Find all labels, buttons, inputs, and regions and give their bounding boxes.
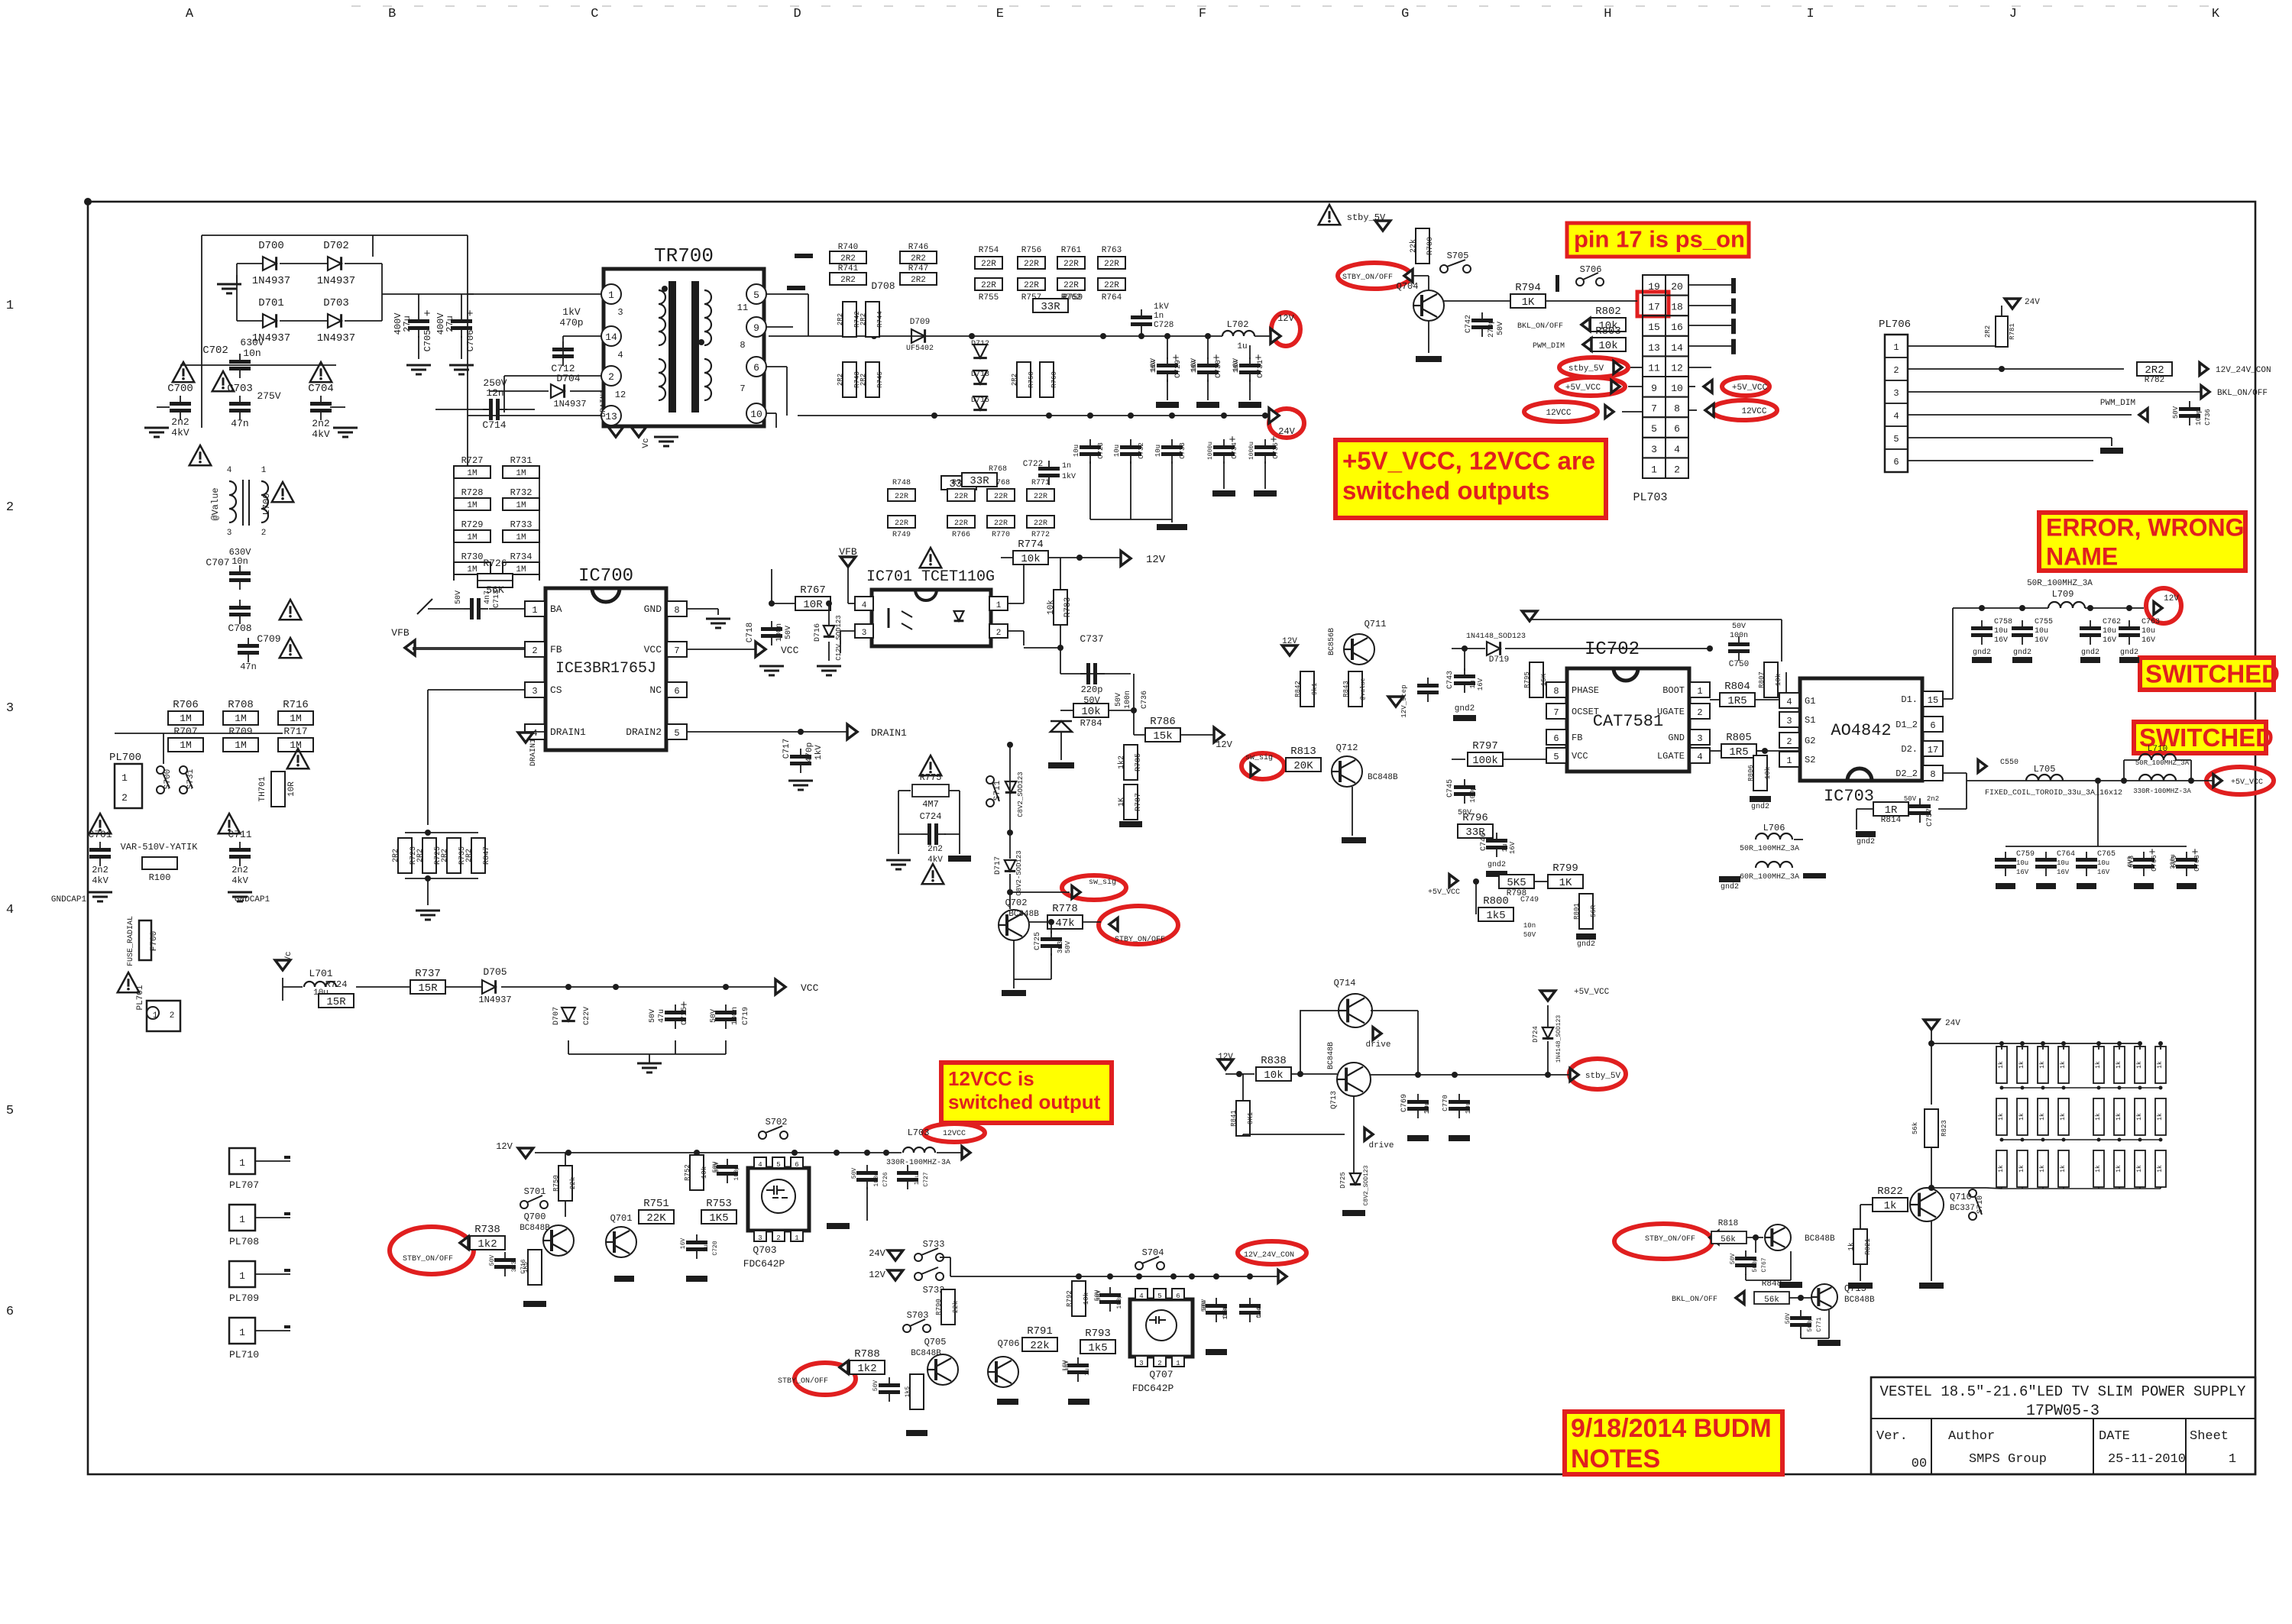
svg-text:Vc: Vc <box>284 951 293 961</box>
svg-text:1M: 1M <box>516 533 526 542</box>
svg-text:S711: S711 <box>993 780 1002 801</box>
svg-text:R732: R732 <box>510 487 533 498</box>
svg-text:VCC: VCC <box>801 982 819 994</box>
svg-text:10k: 10k <box>1083 1292 1090 1305</box>
svg-text:4: 4 <box>1786 697 1792 707</box>
svg-text:C755: C755 <box>2035 618 2053 626</box>
svg-text:2R2: 2R2 <box>416 849 425 862</box>
svg-text:R778: R778 <box>1052 903 1078 915</box>
svg-text:C731: C731 <box>1257 360 1265 378</box>
svg-text:C718: C718 <box>746 623 755 642</box>
svg-text:7: 7 <box>740 383 745 394</box>
svg-text:12: 12 <box>615 390 626 400</box>
svg-text:TR700: TR700 <box>654 244 714 267</box>
svg-text:1K5: 1K5 <box>709 1212 728 1224</box>
svg-text:D708: D708 <box>871 280 895 292</box>
svg-text:5: 5 <box>1893 434 1899 445</box>
svg-text:1: 1 <box>1651 464 1657 475</box>
svg-text:FIXED_COIL_TOROID_33u_3A_16x12: FIXED_COIL_TOROID_33u_3A_16x12 <box>1985 789 2122 797</box>
svg-text:C: C <box>591 7 598 21</box>
svg-text:+5V_VCC: +5V_VCC <box>1732 383 1768 393</box>
svg-text:FDC642P: FDC642P <box>743 1258 785 1270</box>
svg-text:6: 6 <box>1176 1292 1180 1300</box>
svg-text:6: 6 <box>795 1161 798 1169</box>
svg-text:E: E <box>996 7 1004 21</box>
svg-text:1M: 1M <box>235 739 247 751</box>
svg-text:20K: 20K <box>1293 760 1313 772</box>
svg-text:R783: R783 <box>1063 597 1073 617</box>
svg-text:10u: 10u <box>1073 445 1080 457</box>
svg-text:Q705: Q705 <box>924 1337 947 1347</box>
svg-text:22R: 22R <box>954 493 968 501</box>
svg-text:PWM_DIM: PWM_DIM <box>1533 342 1565 351</box>
svg-text:1: 1 <box>1697 686 1702 697</box>
svg-text:C769: C769 <box>1400 1094 1409 1112</box>
svg-text:10u: 10u <box>2097 859 2109 867</box>
svg-text:+5V_VCC: +5V_VCC <box>1428 888 1460 897</box>
svg-text:4: 4 <box>1893 411 1899 422</box>
svg-text:STBY_ON/OFF: STBY_ON/OFF <box>1342 273 1393 282</box>
svg-text:100k: 100k <box>1472 755 1498 767</box>
svg-text:17: 17 <box>1648 302 1660 313</box>
svg-text:R822: R822 <box>1877 1186 1903 1198</box>
svg-text:C749: C749 <box>1520 896 1539 904</box>
svg-text:50R_100MHZ_3A: 50R_100MHZ_3A <box>2135 759 2190 767</box>
svg-text:12V_24V_CON: 12V_24V_CON <box>2216 366 2271 375</box>
svg-text:12VCC is: 12VCC is <box>948 1067 1034 1090</box>
svg-text:+5V_VCC, 12VCC are: +5V_VCC, 12VCC are <box>1342 447 1595 475</box>
svg-text:R726: R726 <box>483 558 507 569</box>
svg-text:D701: D701 <box>258 297 284 309</box>
svg-text:56k: 56k <box>1764 1296 1779 1305</box>
svg-text:12: 12 <box>1671 362 1683 374</box>
svg-text:1N4937: 1N4937 <box>478 995 511 1005</box>
svg-text:560p: 560p <box>1807 1317 1814 1331</box>
svg-text:1M: 1M <box>290 739 302 751</box>
svg-text:R771: R771 <box>1031 479 1050 487</box>
svg-text:1N4937: 1N4937 <box>317 275 355 287</box>
svg-text:R792: R792 <box>1066 1290 1073 1307</box>
svg-text:C8V2_SOD123: C8V2_SOD123 <box>1017 772 1025 817</box>
svg-text:10u: 10u <box>2016 859 2028 867</box>
svg-text:1k: 1k <box>2039 1165 2046 1173</box>
svg-text:10u: 10u <box>313 988 329 998</box>
svg-text:1k: 1k <box>1998 1061 2005 1069</box>
svg-text:1: 1 <box>239 1157 245 1169</box>
svg-text:7: 7 <box>1553 707 1559 718</box>
svg-text:R733: R733 <box>510 519 533 530</box>
svg-text:24V: 24V <box>869 1248 885 1259</box>
svg-text:3: 3 <box>862 629 867 638</box>
svg-text:S701: S701 <box>524 1186 546 1197</box>
svg-text:C771: C771 <box>1816 1317 1823 1331</box>
svg-text:R791: R791 <box>1027 1325 1053 1338</box>
svg-text:D: D <box>793 7 801 21</box>
svg-text:5: 5 <box>1553 752 1559 762</box>
svg-text:S706: S706 <box>1580 264 1602 275</box>
svg-text:IC701 TCET110G: IC701 TCET110G <box>866 568 995 586</box>
svg-text:100n: 100n <box>1730 632 1748 640</box>
svg-text:22R: 22R <box>994 493 1008 501</box>
svg-text:56R: 56R <box>1590 904 1598 917</box>
svg-text:2: 2 <box>776 1234 780 1242</box>
svg-text:D724: D724 <box>1532 1026 1539 1043</box>
svg-text:7: 7 <box>1651 403 1657 415</box>
svg-text:50V: 50V <box>649 1009 657 1023</box>
svg-text:47n: 47n <box>231 418 248 429</box>
svg-text:C709: C709 <box>257 633 280 645</box>
svg-text:sw_sig: sw_sig <box>1245 753 1273 762</box>
svg-text:18: 18 <box>1671 302 1683 313</box>
svg-text:R803: R803 <box>1595 325 1621 338</box>
svg-text:S1: S1 <box>1805 715 1815 726</box>
svg-text:C747: C747 <box>1222 1303 1229 1318</box>
svg-text:DATE: DATE <box>2099 1429 2130 1444</box>
svg-text:2R2: 2R2 <box>1984 325 1992 338</box>
svg-text:UGATE: UGATE <box>1657 707 1685 717</box>
svg-text:50V: 50V <box>489 1255 496 1267</box>
svg-text:+5V_VCC: +5V_VCC <box>2231 778 2263 787</box>
svg-text:50V: 50V <box>1732 623 1746 631</box>
svg-text:10k: 10k <box>1598 340 1617 352</box>
svg-text:1k: 1k <box>2136 1061 2143 1069</box>
svg-text:switched outputs: switched outputs <box>1342 477 1549 505</box>
svg-text:1M: 1M <box>467 469 477 478</box>
svg-text:12VCC: 12VCC <box>1741 407 1766 416</box>
svg-text:H: H <box>1604 7 1611 21</box>
svg-text:1k2: 1k2 <box>857 1363 876 1375</box>
svg-text:1k: 1k <box>2095 1113 2102 1121</box>
svg-text:1k5: 1k5 <box>1088 1342 1107 1354</box>
svg-text:UF5402: UF5402 <box>906 345 934 353</box>
svg-text:BA: BA <box>550 603 562 615</box>
svg-text:gnd2: gnd2 <box>1455 704 1475 713</box>
svg-text:PL706: PL706 <box>1879 319 1911 331</box>
svg-text:25-11-2010: 25-11-2010 <box>2108 1452 2186 1467</box>
svg-text:16V: 16V <box>1509 841 1517 854</box>
svg-text:50V: 50V <box>785 626 793 639</box>
svg-text:S705: S705 <box>1447 251 1469 261</box>
svg-text:2: 2 <box>1893 365 1899 376</box>
svg-text:D705: D705 <box>483 966 507 978</box>
svg-text:2R2: 2R2 <box>441 849 449 862</box>
svg-text:100n: 100n <box>1124 691 1132 709</box>
svg-text:BKL_ON/OFF: BKL_ON/OFF <box>2217 389 2268 398</box>
svg-text:1N4148_SOD123: 1N4148_SOD123 <box>1556 1015 1562 1063</box>
svg-text:S703: S703 <box>907 1310 929 1321</box>
svg-text:R813: R813 <box>1290 746 1316 758</box>
svg-text:@value: @value <box>1360 678 1367 700</box>
svg-text:2R2: 2R2 <box>840 254 856 264</box>
svg-text:R842: R842 <box>1294 681 1302 697</box>
svg-text:PL703: PL703 <box>1633 491 1667 504</box>
svg-text:22k: 22k <box>1030 1340 1049 1352</box>
svg-text:SWITCHED: SWITCHED <box>2145 659 2280 687</box>
svg-text:C748: C748 <box>1256 1303 1263 1318</box>
svg-text:56k: 56k <box>1721 1235 1736 1244</box>
svg-text:S733: S733 <box>923 1239 945 1250</box>
svg-text:4: 4 <box>1697 752 1702 762</box>
svg-text:BC856B: BC856B <box>1328 628 1336 655</box>
svg-text:12V: 12V <box>2164 594 2179 603</box>
svg-text:C713: C713 <box>493 590 501 608</box>
svg-text:50V: 50V <box>851 1168 858 1179</box>
svg-text:C717: C717 <box>782 739 792 759</box>
svg-text:Q713: Q713 <box>1330 1091 1339 1109</box>
svg-text:16V: 16V <box>680 1238 687 1250</box>
svg-text:R748: R748 <box>892 479 911 487</box>
svg-text:F: F <box>1199 7 1206 21</box>
svg-text:2R2: 2R2 <box>392 849 400 862</box>
svg-text:1k: 1k <box>2095 1061 2102 1069</box>
svg-text:+5V_VCC: +5V_VCC <box>1574 988 1610 997</box>
svg-text:470p: 470p <box>559 317 583 328</box>
svg-text:C770: C770 <box>1442 1095 1449 1111</box>
svg-text:R814: R814 <box>1881 816 1902 825</box>
svg-text:1u: 1u <box>1501 844 1509 852</box>
svg-text:1: 1 <box>121 772 128 784</box>
svg-text:1u: 1u <box>1084 1368 1091 1376</box>
svg-text:C726: C726 <box>882 1172 889 1186</box>
svg-text:R772: R772 <box>1031 531 1050 539</box>
svg-text:C8V2-SOD123: C8V2-SOD123 <box>1015 850 1023 895</box>
svg-text:60R_100MHZ_3A: 60R_100MHZ_3A <box>1740 873 1799 882</box>
svg-text:D707: D707 <box>552 1007 561 1025</box>
svg-text:22R: 22R <box>954 519 968 528</box>
svg-text:R731: R731 <box>510 455 533 466</box>
svg-text:10k: 10k <box>1047 600 1056 615</box>
svg-text:50V: 50V <box>1497 322 1505 335</box>
svg-text:50V: 50V <box>1904 795 1917 803</box>
svg-text:1k: 1k <box>1884 1200 1897 1212</box>
svg-text:15R: 15R <box>418 982 438 995</box>
svg-text:D2.: D2. <box>1901 744 1918 755</box>
svg-text:R843: R843 <box>1342 681 1350 697</box>
svg-text:S2: S2 <box>1805 755 1815 765</box>
svg-text:Q700: Q700 <box>524 1212 546 1222</box>
svg-text:15R: 15R <box>326 996 346 1008</box>
svg-text:C8V2_SOD123: C8V2_SOD123 <box>1363 1165 1370 1205</box>
svg-text:2R2: 2R2 <box>465 849 474 862</box>
svg-text:G2: G2 <box>1805 736 1815 746</box>
svg-text:R804: R804 <box>1724 681 1750 693</box>
svg-text:@Value: @Value <box>210 487 221 520</box>
svg-text:12VCC: 12VCC <box>1546 409 1571 418</box>
svg-text:10u: 10u <box>1423 1102 1431 1114</box>
svg-text:100p: 100p <box>2195 409 2203 425</box>
svg-text:17: 17 <box>1928 745 1938 755</box>
svg-text:R707: R707 <box>173 726 197 737</box>
svg-text:33R: 33R <box>1041 301 1060 313</box>
svg-text:OCSET: OCSET <box>1572 707 1599 717</box>
svg-text:6: 6 <box>1553 733 1559 744</box>
svg-text:R823: R823 <box>1941 1120 1948 1137</box>
svg-text:R841: R841 <box>1230 1110 1238 1127</box>
svg-text:2R2: 2R2 <box>911 254 926 264</box>
svg-text:D700: D700 <box>258 240 284 252</box>
svg-text:BC848B: BC848B <box>1805 1234 1835 1244</box>
svg-text:00: 00 <box>1912 1457 1927 1471</box>
svg-text:8: 8 <box>674 605 679 616</box>
svg-text:R709: R709 <box>228 726 252 737</box>
svg-text:50V: 50V <box>1096 1290 1102 1302</box>
svg-text:Q711: Q711 <box>1365 619 1387 629</box>
svg-text:R753: R753 <box>706 1198 732 1210</box>
svg-text:Q703: Q703 <box>753 1244 776 1256</box>
svg-text:VCC: VCC <box>644 644 662 655</box>
svg-text:gnd2: gnd2 <box>1751 802 1769 811</box>
svg-text:1k: 1k <box>2018 1165 2025 1173</box>
svg-text:VFB: VFB <box>391 627 410 639</box>
svg-text:D709: D709 <box>910 318 930 327</box>
svg-text:GND: GND <box>644 603 662 615</box>
svg-text:22R: 22R <box>895 493 908 501</box>
svg-text:1: 1 <box>1176 1360 1180 1367</box>
svg-text:1: 1 <box>532 605 537 616</box>
svg-text:22R: 22R <box>895 519 908 528</box>
svg-text:gnd2: gnd2 <box>1577 940 1595 949</box>
svg-text:5: 5 <box>753 290 759 301</box>
svg-text:47u: 47u <box>658 1009 666 1023</box>
svg-text:R706: R706 <box>173 699 199 711</box>
svg-text:10u: 10u <box>2057 859 2069 867</box>
svg-text:50V: 50V <box>1201 1299 1208 1311</box>
svg-text:R781: R781 <box>2009 323 2016 340</box>
svg-text:24V: 24V <box>2025 298 2040 307</box>
svg-text:R717: R717 <box>283 726 307 737</box>
svg-text:C708: C708 <box>228 623 251 634</box>
svg-text:L706: L706 <box>1763 823 1785 833</box>
svg-text:1M: 1M <box>516 501 526 510</box>
svg-text:33R: 33R <box>970 475 989 487</box>
svg-text:5: 5 <box>6 1104 14 1118</box>
svg-text:8K1: 8K1 <box>1247 1112 1254 1124</box>
svg-text:C702: C702 <box>202 345 228 357</box>
svg-text:10u: 10u <box>1113 445 1121 457</box>
svg-text:gnd2: gnd2 <box>2081 648 2099 657</box>
svg-text:4: 4 <box>1139 1292 1143 1300</box>
svg-text:9: 9 <box>1651 383 1657 394</box>
svg-text:1M: 1M <box>467 533 477 542</box>
svg-text:B: B <box>388 7 396 21</box>
svg-text:R767: R767 <box>800 584 826 597</box>
svg-text:C715: C715 <box>681 1007 689 1025</box>
svg-text:1: 1 <box>795 1234 798 1242</box>
svg-text:10u: 10u <box>2141 627 2155 636</box>
svg-text:12V: 12V <box>1216 739 1232 750</box>
svg-text:10u: 10u <box>1154 445 1162 457</box>
svg-text:330R-100MHZ-3A: 330R-100MHZ-3A <box>886 1159 950 1167</box>
svg-text:C759: C759 <box>2016 850 2035 859</box>
svg-text:3: 3 <box>227 529 232 538</box>
svg-text:50V: 50V <box>714 1162 720 1173</box>
svg-text:1M: 1M <box>467 501 477 510</box>
svg-text:gnd2: gnd2 <box>1488 860 1506 869</box>
svg-text:R786: R786 <box>1150 716 1176 728</box>
svg-text:3: 3 <box>758 1234 762 1242</box>
svg-text:1k: 1k <box>2157 1165 2164 1173</box>
svg-text:S731: S731 <box>186 768 196 789</box>
svg-text:drive: drive <box>1368 1141 1394 1150</box>
svg-text:C707: C707 <box>206 557 229 568</box>
svg-text:22R: 22R <box>1063 281 1079 290</box>
svg-text:1M: 1M <box>180 713 192 724</box>
svg-text:DRAIN1: DRAIN1 <box>871 727 907 739</box>
svg-text:1K5: 1K5 <box>523 1262 529 1273</box>
svg-text:6: 6 <box>753 362 759 374</box>
svg-text:14: 14 <box>1671 342 1683 354</box>
svg-text:R764: R764 <box>1102 293 1122 302</box>
svg-text:4: 4 <box>862 601 867 610</box>
svg-text:16V: 16V <box>2141 636 2155 645</box>
svg-text:1N4937: 1N4937 <box>317 332 355 345</box>
svg-text:2n2: 2n2 <box>312 418 329 429</box>
svg-text:stby_5V: stby_5V <box>1347 212 1386 223</box>
svg-text:NC: NC <box>649 684 662 696</box>
svg-text:10n: 10n <box>243 348 261 359</box>
svg-text:6: 6 <box>6 1305 14 1319</box>
svg-text:50R_100MHZ_3A: 50R_100MHZ_3A <box>1740 845 1799 853</box>
svg-text:50R_100MHZ_3A: 50R_100MHZ_3A <box>2027 579 2093 588</box>
svg-text:R768: R768 <box>989 465 1007 474</box>
svg-text:R750: R750 <box>552 1175 560 1192</box>
svg-text:10: 10 <box>1671 383 1683 394</box>
svg-text:L703: L703 <box>908 1127 930 1138</box>
svg-text:GND: GND <box>1668 733 1685 743</box>
svg-text:50V: 50V <box>2172 406 2180 419</box>
svg-text:R730: R730 <box>461 552 484 562</box>
svg-text:L710: L710 <box>2148 745 2167 754</box>
svg-text:11: 11 <box>737 302 748 313</box>
svg-text:1M: 1M <box>290 713 302 724</box>
svg-text:CS: CS <box>550 684 562 696</box>
svg-text:R790: R790 <box>935 1299 943 1315</box>
svg-text:DRAIN1: DRAIN1 <box>529 739 538 766</box>
svg-text:C746: C746 <box>1480 833 1488 851</box>
svg-text:16V: 16V <box>1477 678 1484 691</box>
svg-text:10R: 10R <box>803 599 823 611</box>
svg-text:+: + <box>423 308 430 321</box>
svg-text:24V: 24V <box>1278 426 1295 437</box>
svg-text:1: 1 <box>608 290 614 301</box>
svg-text:50V: 50V <box>1115 693 1123 707</box>
svg-text:S702: S702 <box>766 1117 788 1127</box>
svg-text:VAR-510V-YATIK: VAR-510V-YATIK <box>121 842 199 852</box>
svg-text:G: G <box>1401 7 1409 21</box>
svg-text:2: 2 <box>6 500 14 515</box>
svg-text:sw_sig: sw_sig <box>1089 878 1116 887</box>
svg-text:STBY_ON/OFF: STBY_ON/OFF <box>403 1254 453 1263</box>
svg-text:C734: C734 <box>1231 442 1238 459</box>
svg-text:C723: C723 <box>1097 442 1105 459</box>
svg-text:L702: L702 <box>1227 319 1249 330</box>
svg-text:D715: D715 <box>971 396 989 405</box>
svg-text:100p: 100p <box>1116 1294 1123 1309</box>
svg-text:12V_step: 12V_step <box>1400 684 1408 717</box>
svg-text:10u: 10u <box>914 1174 921 1186</box>
svg-text:C757: C757 <box>1926 808 1934 827</box>
svg-text:1k5: 1k5 <box>1486 910 1505 922</box>
svg-text:PWM_DIM: PWM_DIM <box>2100 399 2135 408</box>
svg-text:R799: R799 <box>1552 862 1578 875</box>
svg-text:PL700: PL700 <box>109 752 141 764</box>
svg-text:16V: 16V <box>1063 1360 1070 1372</box>
svg-text:Ver.: Ver. <box>1876 1429 1908 1444</box>
svg-text:1M: 1M <box>235 713 247 724</box>
svg-text:1k: 1k <box>2116 1061 2122 1069</box>
svg-text:47k: 47k <box>1055 917 1074 930</box>
svg-text:2: 2 <box>1157 1360 1161 1367</box>
